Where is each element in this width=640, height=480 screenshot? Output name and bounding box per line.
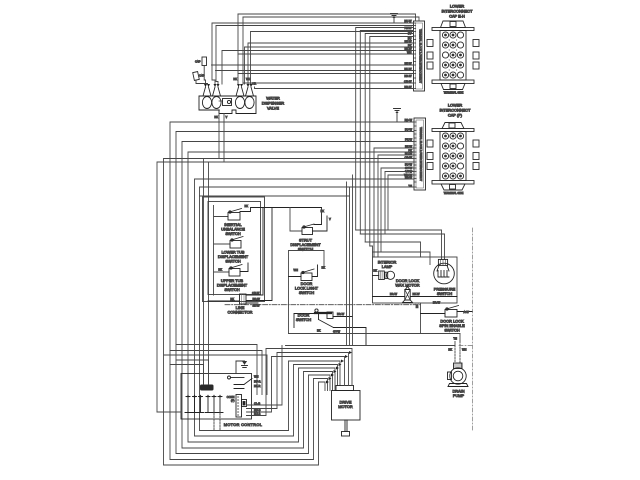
wire to pressure switch bbox=[356, 230, 442, 259]
svg-text:CONNECTOR: CONNECTOR bbox=[227, 310, 252, 315]
svg-text:BK-W: BK-W bbox=[404, 40, 411, 44]
valve center connector bbox=[223, 99, 232, 106]
svg-text:CAP E-H: CAP E-H bbox=[449, 14, 465, 19]
wire stub loop s3 bbox=[247, 357, 345, 413]
svg-text:PK-W: PK-W bbox=[404, 26, 411, 30]
svg-text:OR-W: OR-W bbox=[252, 291, 260, 295]
svg-text:BR-W: BR-W bbox=[405, 176, 413, 180]
wire cross y196 bbox=[200, 195, 350, 197]
svg-text:BU-W: BU-W bbox=[404, 67, 412, 71]
wire pump drop B bbox=[454, 346, 456, 364]
wire into boxC bbox=[365, 242, 420, 257]
wire W4b bbox=[360, 31, 413, 235]
svg-text:BU-W: BU-W bbox=[405, 128, 413, 132]
terminal strip TB1 bbox=[414, 21, 425, 91]
wire x157 terminal bbox=[157, 411, 181, 413]
wire W14 top bbox=[238, 14, 416, 21]
label S6 bbox=[296, 313, 312, 323]
svg-text:SWITCH: SWITCH bbox=[224, 287, 240, 292]
svg-text:WH: WH bbox=[462, 348, 467, 352]
wire M3 PK-W bbox=[182, 138, 414, 449]
wire valve-out BK bbox=[214, 114, 219, 159]
svg-text:BK: BK bbox=[415, 304, 419, 308]
wire valve-out VT bbox=[224, 114, 228, 163]
wire box C door lock bbox=[373, 257, 458, 303]
label pressure switch bbox=[434, 287, 456, 297]
motor control pin C3 bbox=[198, 397, 204, 413]
svg-text:BK-W: BK-W bbox=[404, 47, 411, 51]
wire W11 bbox=[238, 74, 414, 79]
svg-text:SWITCH: SWITCH bbox=[437, 291, 453, 296]
wire W5 bbox=[248, 40, 414, 85]
svg-text:PUMP: PUMP bbox=[453, 393, 465, 398]
svg-text:TN: TN bbox=[408, 184, 412, 188]
capacitor CAP2 bbox=[193, 72, 208, 84]
svg-text:BR-W: BR-W bbox=[390, 292, 398, 296]
wire loop rect R1 switch column bbox=[203, 197, 265, 302]
motor control box bbox=[181, 374, 252, 420]
svg-text:VALVE: VALVE bbox=[267, 106, 279, 111]
pin C6 drop bbox=[219, 413, 221, 431]
motor control input connector blob bbox=[200, 385, 214, 391]
svg-text:V: V bbox=[226, 115, 228, 119]
svg-text:BK: BK bbox=[245, 204, 249, 208]
wire into boxC corner bbox=[370, 246, 373, 257]
wire blob drop 2 bbox=[208, 162, 210, 385]
wire doorbox verticals bbox=[347, 175, 353, 346]
lamp DS1 bbox=[373, 271, 395, 280]
svg-text:SWITCH: SWITCH bbox=[299, 290, 315, 295]
water dispenser valve body bbox=[199, 87, 256, 114]
svg-text:WH: WH bbox=[246, 77, 251, 81]
wire W4d bbox=[370, 37, 414, 247]
svg-text:WH: WH bbox=[254, 375, 259, 379]
svg-text:BU-B: BU-B bbox=[254, 412, 261, 416]
wire valve drop BK bbox=[233, 14, 238, 84]
wire M4 BK-W bbox=[374, 145, 414, 258]
wire W12 bbox=[243, 80, 414, 84]
wire W3 GY bbox=[251, 32, 414, 85]
label drain pump bbox=[452, 389, 464, 399]
connector U2 pins bbox=[442, 133, 463, 179]
ground G2 bbox=[394, 109, 401, 123]
svg-text:CONN: CONN bbox=[227, 395, 235, 399]
wire feeder f2 bbox=[170, 351, 262, 395]
wire M12 BR-W bbox=[195, 176, 415, 437]
svg-text:BK: BK bbox=[317, 329, 321, 333]
wire W2 PK-W bbox=[216, 26, 414, 85]
svg-text:BU-W: BU-W bbox=[405, 163, 413, 167]
svg-text:RD-W: RD-W bbox=[405, 118, 413, 122]
svg-text:PK: PK bbox=[408, 149, 412, 153]
svg-text:CAP (P): CAP (P) bbox=[448, 113, 463, 118]
wire M9 GY-W bbox=[381, 166, 414, 252]
label S3 bbox=[217, 278, 248, 292]
drive motor ground lead bbox=[342, 420, 350, 436]
wire to spin enable right bbox=[360, 234, 444, 259]
svg-text:LAMP: LAMP bbox=[382, 264, 393, 269]
valve coil L2 bbox=[212, 97, 221, 109]
wire pump drop A bbox=[459, 334, 461, 342]
wire M5 PK bbox=[188, 149, 414, 443]
svg-text:BK-W: BK-W bbox=[253, 304, 260, 308]
svg-text:BK: BK bbox=[448, 348, 452, 352]
svg-text:V: V bbox=[329, 217, 331, 221]
valve coil L3 bbox=[235, 97, 244, 109]
svg-text:PK: PK bbox=[408, 44, 412, 48]
svg-text:CL-B: CL-B bbox=[254, 402, 260, 406]
wire into blob B bbox=[170, 365, 204, 385]
pressure switch S7 bbox=[434, 259, 455, 283]
relay contact K1 bbox=[228, 376, 253, 389]
wire stub loop s4 bbox=[247, 349, 353, 416]
svg-text:VT-W: VT-W bbox=[405, 170, 412, 174]
motor control pin C2 bbox=[192, 397, 198, 413]
connector J1 line connector bbox=[208, 208, 272, 305]
wire feeder f3 bbox=[164, 355, 267, 395]
svg-text:BU-W: BU-W bbox=[404, 19, 412, 23]
svg-text:BR-W: BR-W bbox=[337, 312, 345, 316]
svg-text:SWITCH: SWITCH bbox=[225, 259, 241, 264]
label drive motor bbox=[338, 400, 353, 410]
svg-text:BK: BK bbox=[230, 297, 234, 301]
svg-text:BU-R: BU-R bbox=[254, 380, 261, 384]
label door lock wax motor bbox=[395, 278, 419, 288]
svg-text:OR-W: OR-W bbox=[404, 80, 412, 84]
motor feed arrows bbox=[326, 351, 352, 384]
svg-text:(P): (P) bbox=[231, 399, 235, 403]
connector U2 label bbox=[440, 103, 472, 118]
svg-text:BK: BK bbox=[373, 269, 377, 273]
svg-text:BR-W: BR-W bbox=[404, 85, 412, 89]
motor control pin arrows bbox=[187, 395, 222, 398]
svg-text:GY-W: GY-W bbox=[333, 330, 341, 334]
svg-text:SWITCH: SWITCH bbox=[296, 317, 312, 322]
svg-text:TERMINAL SIDE: TERMINAL SIDE bbox=[444, 91, 464, 95]
connector U2 body bbox=[427, 123, 479, 191]
wire W6 bbox=[245, 44, 414, 85]
label interior lamp bbox=[378, 260, 397, 270]
label S5 bbox=[295, 281, 319, 295]
wire feeder f1 bbox=[176, 345, 257, 395]
wire M10 VT-W bbox=[385, 170, 414, 235]
wire M6 BU-W bbox=[378, 152, 414, 257]
svg-text:MOTOR: MOTOR bbox=[338, 404, 353, 409]
wire M1 RD-W bbox=[170, 118, 414, 460]
svg-text:TERMINAL BLOCK LOWER INTERCONN: TERMINAL BLOCK LOWER INTERCONNECT bbox=[418, 29, 422, 84]
svg-text:BK-R: BK-R bbox=[254, 384, 260, 388]
switch S8 door lock spin enable bbox=[421, 306, 473, 318]
svg-text:RD-W: RD-W bbox=[253, 297, 261, 301]
svg-text:WH: WH bbox=[294, 268, 299, 272]
motor B1 door lock wax motor bbox=[373, 287, 458, 303]
svg-text:BK-W: BK-W bbox=[405, 145, 412, 149]
wire valve drop WH bbox=[243, 17, 251, 84]
svg-text:CAP: CAP bbox=[195, 60, 201, 64]
terminal strip TB2 bbox=[414, 118, 426, 190]
wire blob drop 1 bbox=[203, 159, 205, 386]
wire strut left riser bbox=[290, 208, 302, 232]
svg-text:PK-W: PK-W bbox=[405, 138, 412, 142]
chassis dash-dot line bbox=[459, 228, 473, 430]
label S8 bbox=[439, 319, 465, 333]
svg-text:A-W: A-W bbox=[464, 310, 470, 314]
wire door lock light loop bbox=[289, 251, 325, 334]
switch S1 inertial unbalance bbox=[228, 208, 322, 221]
motor control pin C5 bbox=[211, 397, 217, 413]
wire M11 WH-W bbox=[388, 173, 414, 230]
svg-text:TERMINAL SIDE: TERMINAL SIDE bbox=[444, 191, 464, 195]
svg-text:BK: BK bbox=[218, 268, 222, 272]
wire W15 top bbox=[243, 17, 419, 21]
wire loop rect R2 switch column bbox=[208, 202, 261, 295]
valve coil L1 bbox=[202, 97, 211, 109]
wire W10 left bundle bbox=[216, 67, 414, 71]
drive motor M-DRV bbox=[332, 386, 361, 421]
wire W9 left bundle bbox=[212, 62, 414, 66]
svg-text:CAP: CAP bbox=[199, 74, 205, 78]
svg-text:TN: TN bbox=[453, 337, 457, 341]
switch S3 upper tub displacement bbox=[229, 263, 248, 276]
ground G3 bbox=[236, 361, 248, 374]
connector U1 pins bbox=[442, 32, 463, 78]
svg-text:SWITCH: SWITCH bbox=[225, 231, 241, 236]
svg-text:BK: BK bbox=[214, 115, 218, 119]
switch S6 door switch bbox=[294, 309, 366, 346]
svg-text:BU-W: BU-W bbox=[405, 152, 413, 156]
switch S5 door lock light bbox=[289, 265, 318, 281]
wire W13 bbox=[255, 85, 414, 89]
svg-text:BR-W: BR-W bbox=[433, 301, 441, 305]
connector U1 label bbox=[442, 4, 474, 19]
motor control pin C6 bbox=[217, 397, 223, 413]
svg-text:RD-B: RD-B bbox=[254, 408, 261, 412]
wire W8 to valve coil2 bbox=[238, 51, 414, 55]
svg-text:BK-W: BK-W bbox=[413, 292, 420, 296]
wire M2 BU-W bbox=[176, 128, 414, 454]
svg-text:TERMINAL BLOCK LOWER INTERCONN: TERMINAL BLOCK LOWER INTERCONNECT bbox=[419, 127, 423, 182]
label S1 bbox=[221, 222, 245, 236]
label J1 bbox=[227, 305, 252, 315]
wire boxB bottom extension bbox=[289, 333, 461, 335]
svg-text:GY-W: GY-W bbox=[405, 166, 413, 170]
motor control pin C1 bbox=[185, 397, 191, 413]
label S4 bbox=[290, 238, 321, 252]
water dispenser valve label bbox=[262, 96, 285, 111]
svg-text:WH: WH bbox=[407, 51, 412, 55]
svg-text:MOTOR CONTROL: MOTOR CONTROL bbox=[224, 422, 263, 427]
wire W7 bbox=[222, 47, 414, 84]
wire long y304 bbox=[225, 304, 421, 306]
wire valve drop OR bbox=[252, 82, 256, 86]
svg-text:BK-W: BK-W bbox=[404, 62, 411, 66]
capacitor CAP1 bbox=[202, 57, 207, 84]
svg-text:BK: BK bbox=[321, 209, 325, 213]
svg-text:BK: BK bbox=[233, 77, 237, 81]
switch S2 lower tub displacement bbox=[230, 237, 243, 249]
motor control pin C4 bbox=[205, 397, 211, 413]
wire pressure feed left bbox=[373, 252, 431, 265]
wire inertial loop bbox=[214, 206, 231, 296]
wire W4 to strut area bbox=[356, 28, 414, 231]
pin C5 drop bbox=[213, 413, 215, 431]
valve coil L4 bbox=[245, 97, 254, 109]
valve terminal ticks bbox=[204, 110, 253, 114]
svg-text:SWITCH: SWITCH bbox=[444, 328, 460, 333]
valve entry arrows bbox=[204, 84, 253, 87]
wire M13 bbox=[200, 184, 415, 431]
wire M8 from valve VT bbox=[157, 162, 414, 412]
switch S4 strut displacement bbox=[302, 208, 327, 235]
svg-text:BK: BK bbox=[322, 266, 326, 270]
svg-text:OR: OR bbox=[252, 82, 256, 86]
wire M7 from valve BK bbox=[164, 156, 415, 466]
wire long pump feed bbox=[286, 342, 456, 346]
ground G1 bbox=[391, 14, 398, 24]
wire into blob A bbox=[176, 360, 209, 385]
wire stub loop s1 to drain pump bbox=[247, 346, 283, 406]
wire stub loop s2 bbox=[247, 353, 349, 409]
svg-text:OR-W: OR-W bbox=[405, 156, 413, 160]
svg-text:BR-W: BR-W bbox=[404, 74, 412, 78]
label S2 bbox=[218, 250, 249, 264]
wire W4c bbox=[365, 34, 413, 243]
wire W1 BU-W bbox=[212, 19, 414, 84]
connector U1 body bbox=[427, 21, 479, 90]
drain pump P1 bbox=[448, 363, 469, 387]
motor control connector strip J2 bbox=[236, 395, 247, 418]
